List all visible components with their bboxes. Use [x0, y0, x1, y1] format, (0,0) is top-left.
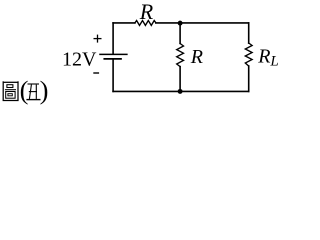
resistor R2 (middle vertical) — [177, 44, 184, 67]
svg-text:R: R — [139, 0, 154, 24]
glyph 圖 outer box — [3, 82, 18, 100]
glyph 圖 lower inner dash — [8, 94, 12, 96]
svg-text:12V: 12V — [62, 49, 97, 71]
battery polarity + — [94, 35, 102, 43]
node junction bottom — [178, 89, 183, 94]
wire middle branch bottom — [179, 67, 181, 92]
wire bottom — [113, 90, 249, 92]
svg-text:(: ( — [20, 75, 29, 105]
glyph 圖 corner nubs — [2, 81, 4, 82]
glyph 五 — [26, 84, 40, 100]
battery V1 negative plate — [104, 58, 121, 60]
resistor R1 (top horizontal) — [135, 21, 156, 26]
wire top-right segment — [156, 22, 249, 24]
wire right branch bottom — [248, 66, 250, 91]
wire middle branch top — [179, 23, 181, 44]
resistor RL (right vertical) — [245, 43, 252, 66]
wire left vertical (battery + lead) — [112, 23, 114, 54]
figure caption 圖(五) — [3, 81, 18, 100]
svg-text:R: R — [190, 46, 203, 68]
wire right branch top — [248, 23, 250, 43]
svg-text:): ) — [40, 75, 49, 105]
node junction top — [178, 21, 183, 26]
wire left vertical (battery - lead) — [112, 60, 114, 92]
battery V1 positive plate — [100, 53, 127, 55]
glyph 圖 inner small mouth — [7, 85, 13, 88]
battery polarity - — [93, 72, 99, 74]
glyph 圖 middle bar — [5, 89, 16, 91]
glyph 圖 lower box — [6, 92, 15, 99]
wire top-left segment — [113, 22, 135, 24]
